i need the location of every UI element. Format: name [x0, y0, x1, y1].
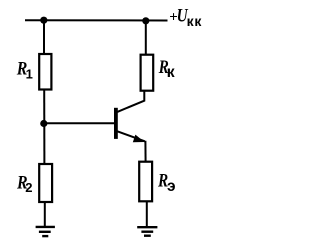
svg-text:1: 1: [26, 67, 33, 82]
svg-text:э: э: [167, 178, 176, 195]
svg-text:к: к: [167, 64, 176, 81]
svg-text:кк: кк: [187, 13, 203, 29]
svg-text:2: 2: [25, 180, 32, 195]
